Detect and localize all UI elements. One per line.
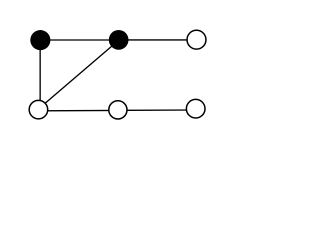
wire edge TM-TR <box>119 39 197 41</box>
node BL open <box>29 100 48 119</box>
wire edge BL-TM diagonal <box>39 40 119 108</box>
node TM filled <box>109 30 129 50</box>
wire edge BM-BR <box>118 109 196 111</box>
node TR open <box>187 30 206 49</box>
wire edge BL-BM <box>38 109 117 111</box>
node BR open <box>186 99 205 118</box>
node BM open <box>109 101 127 119</box>
node TL filled <box>30 30 50 50</box>
wire edge TL-BL <box>39 40 41 101</box>
wire edge TL-TM <box>40 39 118 41</box>
